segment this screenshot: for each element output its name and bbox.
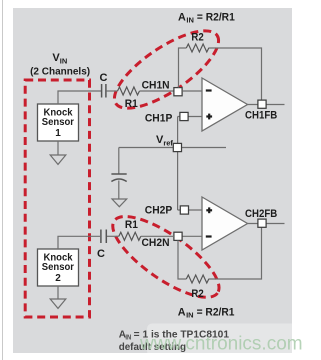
caption text <box>119 330 230 353</box>
svg-text:(2 Channels): (2 Channels) <box>30 67 90 78</box>
svg-text:C: C <box>97 248 105 260</box>
wire R1 to CH1N <box>140 90 175 92</box>
svg-text:CH1N: CH1N <box>142 79 170 91</box>
resistor R1 (channel 1) <box>118 87 140 110</box>
capacitor C (channel 2) <box>97 230 106 261</box>
svg-text:A: A <box>178 11 186 23</box>
svg-text:IN: IN <box>125 335 131 342</box>
svg-text:R1: R1 <box>125 219 138 231</box>
node Vref <box>119 117 226 211</box>
op-amp U1 <box>202 78 248 131</box>
node CH2FB and output wire <box>245 208 285 228</box>
label AIN = R2/R1 (top) <box>178 11 235 24</box>
svg-text:2: 2 <box>55 273 61 284</box>
wire R1 to CH2N <box>141 235 174 237</box>
svg-text:Sensor: Sensor <box>42 262 74 273</box>
svg-text:R2: R2 <box>191 32 203 44</box>
knock sensor 2 <box>38 249 79 286</box>
knock sensor 1 <box>38 104 79 141</box>
wire sensor1 to ground <box>57 141 59 155</box>
resistor R1 (channel 2) <box>119 219 141 240</box>
node CH2N <box>142 232 203 249</box>
gain highlight ellipse (channel 1) <box>104 17 230 122</box>
op-amp U2 <box>202 197 248 250</box>
wire sensor1 to capacitor <box>58 91 101 104</box>
gain highlight ellipse (channel 2) <box>102 203 230 311</box>
svg-text:CH2N: CH2N <box>142 237 170 249</box>
feedback wire channel 2 <box>178 228 262 280</box>
svg-text:IN: IN <box>186 311 194 320</box>
node CH2P <box>145 205 202 217</box>
capacitor C (channel 1) <box>100 72 108 98</box>
resistor R2 (channel 2) <box>186 275 208 300</box>
dashed region: 2-channel input <box>25 80 89 317</box>
wire sensor2 to capacitor <box>58 236 100 249</box>
watermark band <box>147 324 310 357</box>
node CH1N <box>142 79 182 95</box>
svg-text:IN: IN <box>186 16 194 25</box>
feedback wire channel 1 <box>179 48 262 100</box>
wire capacitor to R1 (channel 1) <box>107 90 118 92</box>
svg-text:= R2/R1: = R2/R1 <box>197 306 235 318</box>
svg-text:CH2P: CH2P <box>145 205 172 217</box>
svg-text:CH1P: CH1P <box>145 112 172 124</box>
svg-text:www.cntronics.com: www.cntronics.com <box>139 334 303 355</box>
svg-text:R1: R1 <box>125 98 138 110</box>
svg-text:= R2/R1: = R2/R1 <box>197 11 235 23</box>
watermark <box>139 334 303 355</box>
ground (sensor 1) <box>50 155 66 164</box>
svg-text:A: A <box>178 306 186 318</box>
svg-text:CH2FB: CH2FB <box>245 208 277 220</box>
svg-text:C: C <box>100 72 108 84</box>
svg-text:R2: R2 <box>191 288 203 300</box>
svg-text:Sensor: Sensor <box>42 117 74 128</box>
capacitor (Vref bypass) <box>111 148 126 200</box>
ground (sensor 2) <box>50 299 66 308</box>
wire CH1N to op-amp inverting input <box>182 90 202 92</box>
node CH1P <box>145 112 202 124</box>
label AIN = R2/R1 (bottom) <box>178 306 235 319</box>
svg-text:1: 1 <box>55 128 61 139</box>
wire capacitor to R1 (channel 2) <box>107 235 119 237</box>
ground (Vref) <box>112 199 127 207</box>
wire sensor2 to ground <box>57 286 59 299</box>
node CH1FB and output wire <box>245 100 285 121</box>
svg-text:CH1FB: CH1FB <box>245 109 277 121</box>
resistor R2 (channel 1) <box>186 32 208 52</box>
label VIN (2 Channels) <box>30 52 90 78</box>
